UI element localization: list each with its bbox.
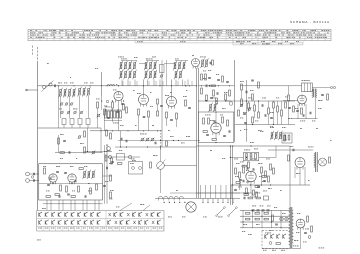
resistor R26 [285, 102, 287, 108]
wire screen col [101, 96, 103, 110]
wire right v3 [275, 146, 277, 158]
wire box-to-table drops [46, 200, 48, 211]
wire af bus vertical E [232, 146, 234, 205]
resistor R15 [211, 85, 215, 87]
resistor R40 [84, 147, 86, 153]
wire out bottom [292, 118, 318, 120]
resistor R90 [90, 188, 92, 194]
IF transformer T2 coil L20 [150, 72, 152, 78]
resistor R102 [270, 164, 272, 170]
label cluster text [58, 82, 60, 85]
resistor R14 [201, 88, 203, 94]
capacitor C68 [210, 97, 213, 99]
label drv text [290, 145, 292, 148]
label top right text [200, 56, 202, 59]
resistor R22 [241, 99, 243, 105]
wire mid-right stubs [241, 90, 243, 99]
wire switch bus [155, 198, 240, 200]
capacitor C21 [288, 107, 291, 109]
coil L41 [246, 154, 248, 160]
switch table contacts row2 left [39, 221, 41, 224]
coil L2 [64, 90, 66, 97]
coil L3 [69, 90, 71, 97]
wire psu bottom [262, 248, 301, 250]
resistor R77 [268, 176, 270, 182]
resistor R96 [264, 212, 268, 214]
IF transformer T1 coil L13 [125, 72, 127, 78]
capacitor C18 [244, 122, 247, 124]
resistor R17 [229, 90, 231, 96]
wire switch risers [200, 185, 202, 199]
resistor R51 [256, 197, 260, 199]
label dm text [203, 70, 204, 73]
trimmer CT20 [240, 104, 243, 107]
wire main HT bus [120, 85, 197, 87]
mains transformer primary [289, 209, 291, 212]
label psu text top [243, 192, 245, 195]
IF transformer T1 coil L15 [134, 72, 136, 78]
electrolytic capacitor CE3 [262, 209, 265, 211]
IF transformer T1 coil L10 [129, 63, 131, 69]
potentiometer P2 [108, 155, 111, 158]
capacitor C31 [47, 184, 50, 186]
wire ant in 2 [30, 180, 39, 182]
resistor R80 [256, 192, 258, 197]
switch table frame [37, 211, 164, 232]
IF transformer T3 coil L26 [180, 72, 182, 78]
resistor R33 [255, 186, 259, 188]
wire IF amp drops [138, 115, 140, 131]
wire dashed gang link [160, 130, 162, 132]
output transformer T6 [315, 152, 317, 172]
capacitor C40 [243, 197, 245, 200]
mains switch dashed box [262, 230, 264, 232]
resistor R98 [216, 98, 218, 104]
dial lamp LA1 [280, 217, 284, 221]
label af text3 [235, 175, 236, 178]
wire pot to bus [164, 165, 196, 167]
padder capacitor C3 [78, 119, 82, 125]
terminal TS1 [330, 86, 332, 88]
label out text [295, 107, 297, 110]
tube V3 IF amplifier [139, 95, 149, 105]
resistor R36 [288, 155, 290, 161]
label top wires [118, 56, 119, 59]
capacitor C19 [321, 94, 324, 96]
electrolytic capacitor CE1 [252, 209, 255, 211]
IF transformer T1 coil L12 [120, 72, 122, 78]
IF transformer T2 coil L19 [145, 72, 147, 78]
IF transformer T1 coil L9 [125, 63, 127, 69]
wire box drop [215, 136, 217, 140]
trimmer capacitor CT8 [141, 138, 144, 141]
resistor R10 [157, 111, 159, 116]
label fm right text [104, 150, 105, 153]
trimmer capacitor CT2 [65, 103, 67, 105]
resistor R111 [166, 141, 168, 146]
table right block text [236, 40, 238, 43]
IF transformer T4 coil [210, 105, 212, 111]
capacitor C32 [64, 172, 67, 174]
label mr text [248, 97, 250, 100]
electrolytic capacitor CE2 [257, 209, 260, 211]
wire coil drops [60, 96, 62, 118]
resistor R32 [265, 171, 267, 177]
junction dots dm [201, 85, 202, 86]
resistor R54 [246, 218, 250, 220]
label T5 text [302, 79, 304, 82]
trimmer capacitor CT3 [70, 103, 72, 105]
wire screen line [101, 72, 103, 96]
wire mr h2 [235, 124, 295, 126]
wire psu v right [300, 230, 302, 249]
ratio det transformer box [243, 153, 258, 161]
switch dots [164, 202, 165, 203]
capacitor C22 [257, 186, 260, 188]
capacitor C54 [270, 117, 273, 119]
resistor R89 [66, 186, 68, 192]
capacitor C34 [106, 167, 108, 170]
resistor R31 [261, 167, 263, 173]
resistor R71 [268, 108, 270, 114]
antenna lead-in (dashed) [37, 47, 39, 49]
wire aux vertical [166, 60, 168, 86]
wire mixer drops [97, 108, 99, 128]
wire vol bus [115, 146, 197, 148]
tube V8 driver [295, 158, 305, 168]
resistor R79 [244, 194, 248, 196]
resistor R25 [327, 94, 329, 100]
wire box-to-table drops 2 [50, 200, 52, 211]
pilot terminal [269, 242, 272, 245]
wire V4 anode [171, 80, 173, 97]
wire af h2 [230, 157, 243, 159]
resistor R56 [272, 215, 274, 221]
resistor R24 [252, 117, 254, 123]
trimmer capacitor CT9 [146, 138, 149, 141]
resistor R9 [157, 99, 159, 104]
resistor R6 [212, 60, 214, 65]
resistor R109 [185, 100, 187, 106]
wire af to sw [197, 192, 235, 194]
tube V1 mixer [114, 91, 123, 100]
junction dots mr [246, 100, 247, 101]
label mains text [265, 232, 266, 235]
resistor R92 [84, 131, 86, 137]
label above table [116, 206, 117, 209]
switch table labels [38, 227, 39, 230]
wire pot down [160, 169, 162, 193]
potentiometer P3 [128, 155, 131, 158]
coil L42 [250, 154, 252, 160]
trimmer capacitor CT5 [67, 111, 69, 113]
label af text [236, 162, 238, 165]
switch S1 wafer tick row [202, 199, 204, 202]
wire HT bus right [240, 85, 283, 87]
wire fm out [103, 175, 113, 177]
capacitor C7 [160, 65, 165, 73]
IF transformer T1 coil L11 [134, 63, 136, 69]
resistor R97 [206, 95, 208, 101]
label bank text [105, 106, 107, 109]
resistor R78 [236, 182, 240, 184]
resistor R103 [262, 176, 266, 178]
junction dots box [215, 111, 216, 112]
resistor R58 [311, 226, 313, 232]
capacitor C14 [226, 81, 229, 83]
trimmer capacitor CT10 [151, 138, 154, 141]
wire HT to transformer [283, 85, 302, 87]
wire shieldbox inner [215, 112, 217, 123]
junction dots af [230, 157, 231, 158]
resistor R29 [239, 172, 241, 178]
resistor R13 [201, 74, 203, 80]
resistor R91 [79, 168, 83, 170]
wire bus vertical B [197, 68, 199, 198]
capacitor C53 [264, 114, 266, 117]
IF transformer T2 coil L16 [145, 63, 147, 69]
mains transformer secondary [292, 210, 294, 213]
wire fm right v2 [104, 145, 106, 204]
trimmer capacitor CT4 [61, 111, 63, 113]
capacitor C26 [125, 140, 127, 143]
wire psu h1 [240, 209, 290, 211]
wire IF link2 [164, 63, 175, 65]
wire drv h [268, 149, 313, 151]
capacitor C10 [160, 105, 163, 107]
capacitor C69 [58, 195, 60, 198]
mains switch contacts [265, 235, 267, 238]
resistor R20 [212, 139, 216, 141]
resistor R110 [118, 163, 122, 165]
wire V3 anode [143, 80, 145, 95]
resistor R67 [248, 103, 250, 109]
resistor R48 [110, 175, 112, 181]
label vol text [153, 154, 155, 157]
drawing number text [319, 247, 321, 250]
capacitor C6 [107, 117, 110, 119]
wire below box [43, 203, 103, 205]
coil L5 [79, 89, 81, 96]
junction dots v1 [118, 85, 119, 86]
coil L31 [206, 60, 208, 67]
label IF text [121, 58, 122, 61]
wire out left [283, 100, 298, 102]
trimmer CT11 [248, 108, 251, 111]
capacitor C55 [246, 167, 248, 170]
antenna coupling coil L1 [42, 85, 45, 88]
coil L51 [88, 172, 90, 178]
capacitor C66 [49, 177, 51, 180]
wire IF group3 top link [175, 60, 188, 62]
switch S1 contact row [159, 196, 163, 198]
wire bus vertical C [233, 60, 235, 142]
resistor R55 [255, 218, 259, 220]
electrolytic capacitor CE4 [267, 209, 270, 211]
coil L7 [88, 89, 90, 96]
dial drive pulley [186, 202, 196, 212]
resistor R95 [264, 218, 268, 220]
coil L27 [271, 133, 273, 139]
resistor R27 [255, 154, 257, 160]
wire drv drops [299, 170, 301, 186]
resistor R44 [78, 186, 80, 192]
coil L1 [60, 90, 62, 97]
resistor R88 [203, 131, 207, 133]
misc component value labels [47, 62, 49, 65]
wire gang vertical upper [161, 60, 163, 86]
resistor R38 [150, 162, 152, 168]
choke L40 [313, 89, 315, 98]
resistor bank R60-R65 [105, 111, 107, 118]
capacitor C20 [309, 112, 311, 115]
resistor R72 [273, 102, 275, 108]
resistor R19 [227, 120, 229, 126]
antenna terminal A1 [26, 172, 30, 176]
coil L6 [83, 89, 85, 96]
resistor R39 [60, 152, 64, 154]
wire out v1 [297, 104, 299, 119]
wire antenna down-lead [37, 61, 39, 211]
capacitor C33 [67, 193, 70, 195]
antenna terminal A2 [26, 179, 30, 183]
resistor R94 [110, 133, 112, 139]
tube V7 AF amplifier [246, 171, 256, 181]
wire switch bus upper [170, 192, 240, 194]
resistor R8 [148, 111, 150, 117]
label af text2 [234, 158, 236, 161]
capacitor C64 [56, 171, 59, 173]
label fmr text [105, 180, 107, 183]
trimmer CT15 [92, 151, 95, 154]
label psu right text [297, 212, 299, 215]
wire psu feed [234, 192, 252, 194]
wire psu h4 [240, 227, 290, 229]
capacitor C51 [261, 104, 263, 107]
junction dots af2 [240, 184, 241, 185]
tube V5 demodulator [211, 123, 221, 133]
resistor R66 [258, 82, 260, 88]
capacitor C9 [143, 116, 146, 118]
IF transformer T3 coil L22 [174, 63, 176, 69]
wire af coupling [118, 140, 200, 142]
wire psu h3 [240, 221, 290, 223]
IF transformer T2 coil L18 [154, 63, 156, 69]
wire T5 to terminals [312, 87, 330, 89]
resistor R41 [58, 138, 60, 144]
resistor R7 [138, 109, 140, 115]
capacitor C60 [296, 110, 299, 112]
resistor R85 [301, 108, 303, 114]
coil L50 [84, 172, 86, 178]
junction dots dm2 [206, 100, 207, 101]
wire mr h1 [235, 100, 295, 102]
terminal TS2 [333, 86, 335, 88]
coil L8 (osc) [107, 85, 110, 86]
wire afm v [87, 128, 89, 152]
trimmer capacitor CT7 [80, 111, 82, 113]
resistor R53 [255, 212, 259, 214]
label det text [240, 80, 242, 83]
capacitor C71 [252, 168, 254, 171]
dial lamp LA2 [285, 217, 289, 221]
resistor R75 [288, 95, 290, 101]
wire mixer bottom [90, 130, 162, 132]
resistor R57 [307, 216, 309, 222]
selenium rectifier box [264, 196, 269, 200]
capacitor C16 [223, 135, 226, 137]
label if2 text [183, 95, 185, 98]
capacitor C1 [54, 85, 56, 88]
wire out v2 [305, 104, 307, 119]
IF transformer T1 coil L8 [120, 63, 122, 69]
resistor R69 [238, 110, 240, 116]
resistor R86 [208, 118, 210, 124]
junction dots fm [52, 183, 53, 184]
label out text2 [285, 96, 286, 99]
coil L29 [280, 133, 282, 139]
terminal fuse [308, 236, 311, 239]
resistor R35 [284, 135, 286, 141]
wire IF group2 top link [146, 60, 159, 62]
resistor R107 [111, 158, 113, 164]
resistor R83 [225, 94, 227, 100]
resistor R28 [235, 168, 237, 174]
capacitor C12 [205, 85, 207, 88]
terminal circle [107, 147, 111, 151]
resistor R84 [293, 106, 295, 112]
antenna terminal A3 [31, 176, 33, 178]
junction dots vol [120, 146, 121, 147]
wire vol drop [160, 147, 162, 161]
capacitor C57 [234, 189, 237, 191]
resistor R74 [281, 110, 283, 116]
resistor R37 [329, 157, 331, 163]
switch S2 arm a [217, 208, 224, 215]
potentiometer P1 volume [157, 162, 165, 170]
switch table contacts row2 right [108, 221, 110, 224]
capacitor C67 [275, 223, 278, 225]
label ac text [170, 135, 172, 138]
switch table contacts row1 right [109, 213, 111, 216]
capacitor C78 [154, 142, 156, 145]
coil L4 [73, 90, 75, 97]
wire AM cluster bottom [38, 127, 102, 129]
label below table [37, 239, 39, 242]
wire af bus vertical D [229, 146, 231, 205]
capacitor C72 [239, 179, 242, 181]
wire mid v2 [120, 131, 122, 147]
wire fm v1 [58, 135, 60, 153]
switch S2 arm b [229, 208, 236, 215]
junction dots psu [252, 210, 253, 211]
output transformer T5 [302, 83, 313, 92]
tube V4 IF amplifier [167, 97, 177, 107]
label psu text2 [243, 223, 245, 226]
trimmer CT10 [160, 75, 162, 77]
mains transformer T7 core [289, 207, 291, 248]
wire bus vertical A [196, 68, 198, 198]
resistor R105 [126, 107, 128, 113]
switch table contacts row1 left [39, 213, 41, 216]
tube V11 rectifier [296, 219, 305, 228]
resistor R4 [104, 109, 106, 115]
small box with parts [282, 133, 292, 143]
wire choke down [315, 97, 317, 119]
resistor R11 [166, 112, 168, 118]
label fm-top text [60, 133, 62, 136]
capacitor C15 [206, 134, 209, 136]
